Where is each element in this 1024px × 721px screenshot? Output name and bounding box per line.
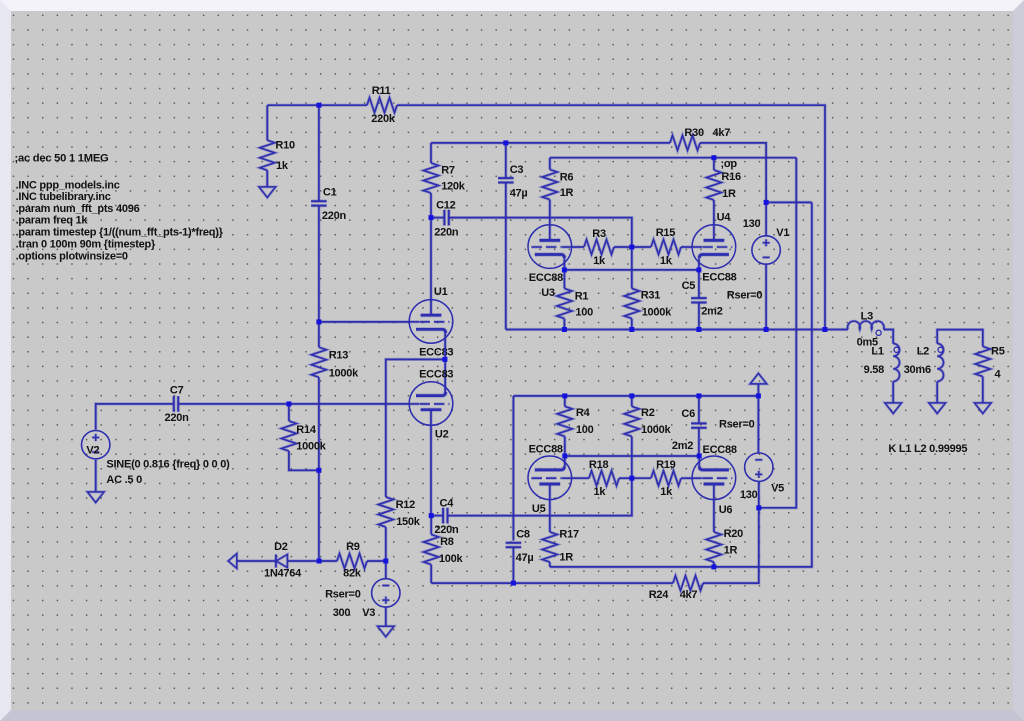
wire C4 left lead	[431, 514, 443, 517]
wire C1 bottom lead	[317, 206, 320, 322]
svg-text:130: 130	[743, 218, 761, 230]
capacitor C7	[174, 396, 178, 412]
arrow flag at wire end	[228, 554, 237, 569]
wire R5 bottom lead	[981, 377, 984, 403]
resistor R7	[424, 163, 439, 193]
wire feedback right vertical	[550, 202, 812, 567]
wire R2 top lead	[630, 396, 633, 407]
svg-text:L2: L2	[917, 346, 929, 358]
svg-text:R16: R16	[721, 171, 741, 183]
wire R2 bottom lead	[630, 436, 633, 478]
wire U1 grid wire	[319, 320, 410, 323]
voltage source V2	[82, 431, 110, 459]
svg-text:C5: C5	[682, 280, 696, 292]
svg-text:R24: R24	[649, 589, 670, 601]
resistor R1	[557, 289, 572, 319]
ground flag above V5 rail	[750, 373, 767, 384]
wire R13 top lead	[317, 322, 320, 347]
ground below L1	[885, 403, 902, 414]
junction C3 top	[503, 140, 508, 145]
junction rail R1	[562, 327, 567, 332]
triode U3	[528, 225, 572, 269]
svg-text:1k: 1k	[660, 486, 673, 498]
svg-text:ECC83: ECC83	[419, 346, 453, 358]
resistor R15	[651, 240, 681, 255]
junction R14 top	[286, 401, 291, 406]
wire U6 anode lead	[712, 484, 715, 532]
svg-text:150k: 150k	[396, 516, 421, 528]
wire C6 bottom lead	[697, 428, 700, 456]
svg-text:C3: C3	[510, 164, 524, 176]
svg-text:U3: U3	[541, 287, 555, 299]
wire R15 to U4 grid	[681, 245, 692, 248]
wire L2 bottom lead	[936, 381, 939, 403]
svg-text:D2: D2	[274, 541, 288, 553]
wire C6 top lead	[697, 396, 700, 424]
capacitor C4	[443, 508, 447, 524]
svg-text:1000k: 1000k	[641, 424, 671, 436]
wire R14 bottom lead	[289, 451, 319, 470]
svg-text:ECC88: ECC88	[529, 444, 563, 456]
resistor R20	[706, 532, 721, 562]
svg-text:ECC88: ECC88	[529, 272, 563, 284]
junction R4 top	[562, 393, 567, 398]
wire U3 cathode lead	[563, 258, 566, 270]
svg-text:Rser=0: Rser=0	[727, 290, 763, 302]
wire V5 bottom lead	[757, 481, 760, 507]
wire R1 bottom lead	[563, 319, 566, 330]
wire top rail left segment	[267, 104, 367, 107]
wire U5 cathode lead	[563, 456, 566, 466]
svg-text:.param timestep {1/((num_fft_p: .param timestep {1/((num_fft_pts-1)*freq…	[16, 227, 224, 239]
svg-text:K L1 L2 0.99995: K L1 L2 0.99995	[888, 443, 967, 455]
svg-text:U5: U5	[532, 503, 546, 515]
wire R6 to U3 anode	[548, 200, 551, 240]
svg-text:L3: L3	[861, 310, 873, 322]
wire R14 top lead	[287, 404, 290, 421]
svg-text:.tran 0 100m 90m {timestep}: .tran 0 100m 90m {timestep}	[16, 238, 156, 250]
wire R30 to V1 column	[700, 143, 766, 203]
wire L1 bottom lead	[892, 381, 895, 403]
capacitor C12	[431, 210, 449, 226]
junction C8 bottom	[511, 581, 516, 586]
junction U1 grid node	[316, 319, 321, 324]
junction R14-R13 bottom	[316, 468, 321, 473]
junction V5 bottom	[756, 505, 761, 510]
wire C8 bottom lead	[512, 547, 515, 583]
svg-text:R19: R19	[656, 459, 676, 471]
inductor L2	[937, 344, 943, 382]
resistor R16	[706, 170, 721, 200]
resistor R18	[589, 471, 619, 486]
ground below R10	[259, 187, 276, 198]
resistor R10	[260, 140, 275, 170]
resistor R11	[367, 98, 397, 113]
wire R13 bottom lead	[317, 377, 320, 561]
wire C3 bottom lead down to upper rail	[504, 183, 507, 330]
wire R3 to junction	[614, 245, 632, 248]
svg-text:ECC88: ECC88	[703, 444, 737, 456]
wire L3 to L1	[884, 330, 894, 344]
wire R7 bottom lead	[429, 193, 432, 218]
svg-text:R31: R31	[641, 290, 661, 302]
svg-text:2m2: 2m2	[701, 306, 722, 318]
svg-text:220n: 220n	[434, 227, 459, 239]
wire R18 to junction	[619, 477, 632, 480]
junction U3 cathode	[562, 267, 567, 272]
svg-text:C4: C4	[440, 498, 455, 510]
wire C3 top lead	[504, 143, 507, 178]
capacitor C3	[498, 178, 514, 182]
svg-text:R9: R9	[346, 541, 360, 553]
junction R20 bottom	[711, 564, 716, 569]
wire U1 anode lead	[429, 218, 432, 316]
resistor R8	[424, 535, 439, 565]
resistor R5	[975, 347, 990, 377]
triode U2	[409, 382, 453, 426]
svg-text:.INC tubelibrary.inc: .INC tubelibrary.inc	[16, 191, 111, 203]
svg-text:4k7: 4k7	[713, 127, 731, 139]
wire arrow to D2	[237, 559, 276, 562]
ground below L2	[929, 403, 946, 414]
svg-text:;op: ;op	[721, 158, 738, 170]
wire R10 top lead	[266, 105, 269, 140]
wire R12 bottom lead	[384, 527, 387, 561]
svg-text:30m6: 30m6	[904, 364, 931, 376]
resistor R13	[311, 347, 326, 377]
svg-text:.options plotwinsize=0: .options plotwinsize=0	[16, 251, 128, 263]
resistor R30	[670, 135, 700, 150]
capacitor C5	[691, 298, 707, 302]
svg-text:1N4764: 1N4764	[264, 567, 302, 579]
junction C4-U2-R8	[429, 513, 434, 518]
svg-text:4k7: 4k7	[680, 589, 698, 601]
junction rail C5	[696, 327, 701, 332]
wire R10 bottom lead	[266, 170, 269, 187]
svg-text:2m2: 2m2	[672, 440, 693, 452]
svg-text:R13: R13	[329, 350, 349, 362]
resistor R12	[378, 497, 393, 527]
wire V2 bottom lead	[94, 460, 97, 492]
svg-text:1R: 1R	[559, 551, 573, 563]
voltage source V3	[372, 579, 400, 607]
inductor L3	[848, 321, 884, 335]
wire cathode junction to R12	[386, 359, 445, 497]
svg-text:U2: U2	[435, 429, 449, 441]
svg-text:C7: C7	[170, 384, 184, 396]
svg-text:R5: R5	[991, 346, 1005, 358]
svg-text:R7: R7	[441, 165, 455, 177]
svg-text:R30: R30	[684, 127, 704, 139]
svg-text:82k: 82k	[343, 567, 362, 579]
svg-text:1k: 1k	[660, 255, 673, 267]
triode U5	[528, 456, 572, 500]
wire junction to R19	[632, 477, 651, 480]
resistor R14	[281, 421, 296, 451]
resistor R31	[624, 289, 639, 319]
svg-text:.INC ppp_models.inc: .INC ppp_models.inc	[16, 180, 120, 192]
wire V2 to C7	[96, 404, 174, 430]
svg-text:47µ: 47µ	[510, 188, 528, 200]
wire V3 top lead	[384, 561, 387, 579]
svg-text:300: 300	[333, 607, 351, 619]
junction U5 cathode	[562, 454, 567, 459]
diode D2	[274, 554, 277, 567]
svg-text:100: 100	[575, 307, 593, 319]
wire R17 bottom lead	[548, 562, 551, 567]
wire lower rail left vertical	[512, 396, 515, 541]
svg-text:;ac dec 50 1 1MEG: ;ac dec 50 1 1MEG	[15, 153, 110, 165]
resistor R19	[651, 471, 681, 486]
svg-text:U6: U6	[719, 504, 733, 516]
resistor R4	[557, 406, 572, 436]
wire U2 anode lead	[429, 410, 432, 516]
svg-text:1000k: 1000k	[296, 441, 326, 453]
junction V1 top	[764, 200, 769, 205]
resistor R24	[673, 576, 703, 591]
svg-text:R20: R20	[724, 528, 744, 540]
junction R2 top	[629, 393, 634, 398]
wire R16 top lead	[712, 158, 715, 170]
wire lower block top rail	[513, 394, 758, 397]
svg-text:R3: R3	[592, 228, 606, 240]
junction C6 top	[696, 393, 701, 398]
resistor R17	[542, 532, 557, 562]
svg-text:220n: 220n	[322, 210, 347, 222]
wire V5 top lead	[757, 396, 760, 453]
junction C1 top	[316, 103, 321, 108]
wire R6 top lead	[548, 158, 551, 170]
wire R4 bottom lead	[563, 436, 566, 456]
triode U1	[409, 300, 453, 344]
resistor R9	[337, 554, 367, 569]
junction U4 cathode	[696, 267, 701, 272]
wire R9 to V3 junction	[367, 559, 386, 562]
svg-text:100: 100	[576, 424, 594, 436]
wire lower cathode row	[565, 454, 699, 457]
voltage source V1	[752, 236, 780, 264]
svg-text:C12: C12	[436, 199, 456, 211]
svg-text:220k: 220k	[371, 113, 396, 125]
wire R20 bottom lead	[712, 562, 715, 567]
svg-text:R11: R11	[372, 85, 391, 97]
junction R9-R12-V3	[383, 559, 388, 564]
svg-text:V5: V5	[771, 483, 784, 495]
svg-text:1000k: 1000k	[642, 307, 672, 319]
svg-text:120k: 120k	[441, 180, 466, 192]
wire C12 to R3-R15 junction	[449, 218, 632, 247]
wire R7 top lead	[429, 143, 432, 163]
junction U1-U2 cathodes	[442, 357, 447, 362]
junction rail to L3	[822, 327, 827, 332]
svg-text:1R: 1R	[560, 187, 574, 199]
wire B+ row from R7 to R30	[431, 141, 670, 144]
junction rail V1	[764, 327, 769, 332]
wire R8 top lead	[430, 516, 433, 535]
svg-text:1k: 1k	[276, 160, 289, 172]
wire U3 grid to R3	[571, 245, 584, 248]
svg-text:47µ: 47µ	[516, 552, 534, 564]
svg-text:1R: 1R	[722, 188, 736, 200]
wire R24 rail right	[703, 508, 759, 583]
svg-text:R10: R10	[275, 140, 295, 152]
svg-text:1R: 1R	[724, 545, 738, 557]
wire D2 to R13 junction	[287, 559, 337, 562]
resistor R2	[624, 406, 639, 436]
wire feedback left vertical	[759, 158, 797, 508]
resistor R3	[584, 240, 614, 255]
svg-text:R18: R18	[589, 459, 609, 471]
wire U4 cathode lead	[697, 258, 700, 270]
wire L2 top lead to R5	[937, 330, 983, 347]
svg-text:V1: V1	[776, 227, 789, 239]
svg-text:ECC88: ECC88	[702, 272, 736, 284]
svg-text:V3: V3	[362, 607, 375, 619]
inductor L1	[893, 344, 899, 382]
junction C12-R7-U1	[429, 215, 434, 220]
svg-text:U4: U4	[717, 212, 732, 224]
wire upper cathode rail	[564, 268, 699, 271]
wire gnd flag lead	[757, 384, 760, 396]
junction D2-R13	[317, 559, 322, 564]
svg-text:V2: V2	[86, 444, 99, 456]
capacitor C1	[311, 201, 327, 205]
junction V5 top	[756, 393, 761, 398]
svg-text:C8: C8	[516, 528, 530, 540]
triode U6	[692, 456, 736, 500]
wire R6 top row	[550, 156, 797, 159]
svg-text:SINE(0 0.816 {freq} 0 0 0): SINE(0 0.816 {freq} 0 0 0)	[106, 458, 230, 470]
wire U6 cathode lead	[698, 456, 701, 466]
ground below V3	[378, 626, 395, 637]
junction R3-R15	[629, 245, 634, 250]
wire upper block ground rail	[506, 328, 848, 331]
wire V1 bottom lead	[764, 264, 767, 329]
svg-text:1000k: 1000k	[329, 368, 359, 380]
wire R1 top lead	[563, 270, 566, 289]
wire V1 top lead	[764, 202, 767, 236]
wire C1 top lead	[317, 105, 320, 201]
capacitor C8	[506, 543, 522, 547]
svg-text:R17: R17	[559, 528, 579, 540]
wire R24 rail left	[431, 581, 673, 584]
wire C5 bottom lead	[697, 303, 700, 330]
junction U6 cathode	[697, 454, 702, 459]
triode U4	[692, 225, 736, 269]
svg-text:AC .5 0: AC .5 0	[106, 474, 142, 486]
svg-text:.param freq 1k: .param freq 1k	[16, 215, 89, 227]
svg-text:100k: 100k	[439, 553, 464, 565]
svg-text:U1: U1	[434, 286, 448, 298]
svg-text:C1: C1	[323, 187, 337, 199]
wire junction to R15	[632, 245, 651, 248]
ground below V2	[87, 492, 104, 503]
ground below R5	[975, 403, 992, 414]
svg-text:Rser=0: Rser=0	[325, 589, 361, 601]
wire C7 to U2 grid	[178, 402, 409, 405]
wire U5 anode lead	[548, 484, 551, 532]
svg-text:R12: R12	[396, 499, 416, 511]
wire R31 bottom lead	[630, 319, 633, 330]
svg-text:Rser=0: Rser=0	[719, 418, 755, 430]
svg-text:130: 130	[740, 489, 758, 501]
junction rail R31	[629, 327, 634, 332]
wire V1 top row	[766, 201, 812, 204]
wire R16 to U4 anode	[712, 200, 715, 239]
svg-text:9.58: 9.58	[864, 364, 885, 376]
capacitor C6	[691, 423, 707, 427]
wire C5 top lead	[697, 270, 700, 298]
svg-text:R15: R15	[656, 227, 676, 239]
wire R31 top lead	[630, 247, 633, 289]
wire R19 to U6 grid	[681, 477, 692, 480]
svg-text:R14: R14	[296, 424, 317, 436]
junction R18-R19	[629, 476, 634, 481]
svg-text:R8: R8	[440, 536, 454, 548]
junction R16 top	[711, 155, 716, 160]
svg-text:220n: 220n	[165, 412, 190, 424]
wire U1-U2 cathode link	[444, 333, 447, 394]
svg-text:R6: R6	[560, 172, 574, 184]
svg-text:220n: 220n	[434, 524, 459, 536]
voltage source V5	[745, 453, 773, 481]
svg-text:1k: 1k	[593, 255, 606, 267]
svg-text:ECC83: ECC83	[419, 369, 453, 381]
svg-text:R1: R1	[575, 291, 589, 303]
wire U5 grid to R18	[571, 477, 589, 480]
svg-text:R4: R4	[576, 407, 591, 419]
svg-text:1k: 1k	[594, 486, 607, 498]
wire R8 bottom lead	[430, 565, 433, 584]
svg-text:R2: R2	[641, 407, 655, 419]
svg-text:L1: L1	[871, 346, 883, 358]
svg-text:.param num_fft_pts 4096: .param num_fft_pts 4096	[16, 203, 140, 215]
wire R4 top lead	[563, 396, 566, 407]
resistor R6	[542, 170, 557, 200]
wire top rail right segment	[397, 105, 825, 329]
wire R2 junction down to C4 row	[448, 478, 632, 515]
wire V3 bottom lead	[384, 607, 387, 626]
svg-text:C6: C6	[681, 408, 695, 420]
